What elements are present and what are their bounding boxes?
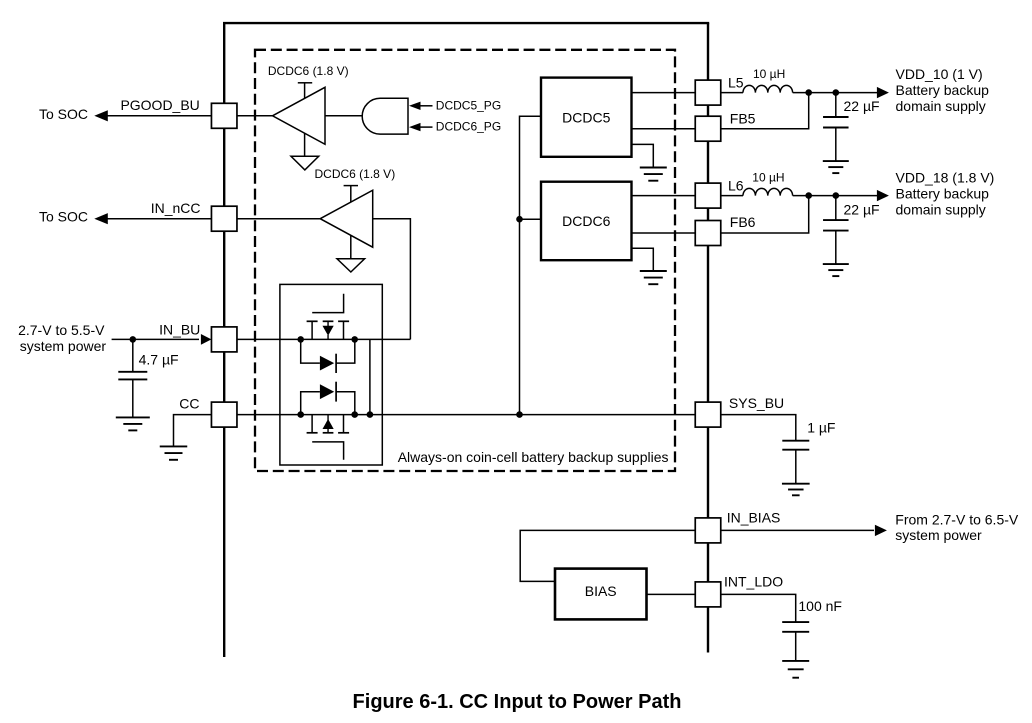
pin SYS_BU (695, 402, 721, 427)
svg-text:Battery backup: Battery backup (896, 185, 990, 201)
capacitor C3 22uF plates (823, 219, 849, 221)
svg-text:L5: L5 (728, 75, 744, 91)
svg-text:Figure 6-1. CC Input to Power: Figure 6-1. CC Input to Power Path (353, 691, 682, 713)
svg-text:From 2.7-V to 6.5-V: From 2.7-V to 6.5-V (895, 511, 1019, 527)
svg-text:IN_BIAS: IN_BIAS (727, 509, 781, 525)
svg-text:2.7-V to 5.5-V: 2.7-V to 5.5-V (18, 322, 105, 338)
ground below DCDC6 (640, 270, 667, 272)
power path block outline (280, 284, 382, 465)
supply stub into buffer U1 (304, 83, 306, 99)
inductor L6 10uH (743, 188, 793, 195)
wire DCDC6 feedback to FB6 (632, 232, 696, 234)
transistor Q1 left lead (311, 321, 313, 339)
arrow into AND gate input 2 (409, 123, 421, 131)
capacitor C2 22uF lead (835, 93, 837, 117)
svg-text:22 µF: 22 µF (844, 201, 880, 217)
transistor Q2 right lead (343, 415, 345, 433)
pin FB5 (695, 116, 721, 141)
pin L6 (695, 183, 721, 208)
buffer U3 (IN_nCC driver) (320, 190, 373, 247)
svg-text:L6: L6 (728, 178, 744, 194)
wire IN_nCC pin to buffer U3 output (237, 218, 321, 220)
junction dot IN_BU rail right (351, 336, 358, 343)
supply bar above buffer U1 (298, 82, 312, 84)
ground (open triangle) of buffer U3 (337, 259, 365, 272)
capacitor C5 100nF plates (782, 621, 809, 623)
svg-text:10 µH: 10 µH (752, 170, 784, 184)
wire IN_BIAS to system power arrow (721, 529, 874, 531)
svg-text:DCDC5: DCDC5 (562, 109, 610, 125)
svg-text:domain supply: domain supply (896, 98, 986, 114)
block BIAS (555, 569, 647, 620)
ground (open triangle) of buffer U1 (291, 156, 319, 170)
arrow VDD_10 output (877, 87, 889, 98)
wire buffer U1 input to AND gate output (325, 115, 364, 117)
svg-text:To SOC: To SOC (39, 106, 88, 122)
junction dot IN_BU rail left (297, 336, 304, 343)
wire IN_BIAS to BIAS block (520, 530, 695, 581)
pin FB6 (695, 221, 721, 246)
diode D1 cathode bar (335, 354, 337, 373)
wire buffer U3 input to IN_BU net (373, 219, 411, 340)
diode D2 cathode bar (335, 382, 337, 402)
junction dot CC rail left (297, 411, 304, 418)
transistor Q1 gate stub (312, 294, 343, 313)
wire FB6 feedback loop (721, 196, 809, 233)
ground stub below buffer U1 (304, 133, 306, 156)
capacitor C3 22uF lead (835, 196, 837, 221)
capacitor C1 4.7 uF plates (118, 371, 147, 373)
ground below C4 (782, 483, 810, 485)
capacitor C1 lower lead (132, 379, 134, 417)
IC boundary right edge (707, 23, 709, 652)
transistor Q1 right lead (343, 321, 345, 339)
AND gate U2 (DCDC5_PG & DCDC6_PG) (362, 98, 408, 134)
capacitor C1 4.7 uF lead (132, 339, 134, 371)
wire PGOOD_BU pin to arrow (107, 115, 211, 117)
diode D1 (body diode of Q1) (320, 356, 334, 371)
svg-text:DCDC6 (1.8 V): DCDC6 (1.8 V) (268, 64, 349, 78)
supply bar above buffer U3 (344, 185, 358, 187)
svg-text:Always-on coin-cell battery ba: Always-on coin-cell battery backup suppl… (398, 449, 669, 465)
junction dot on IN_BU input (130, 336, 137, 343)
buffer U1 (PGOOD_BU driver) (273, 87, 326, 144)
wire IN_nCC pin to arrow (107, 218, 211, 220)
wire L6 pin to inductor (721, 195, 743, 197)
pin INT_LDO (695, 582, 721, 607)
svg-text:system power: system power (20, 338, 107, 354)
wire BIAS output to INT_LDO (647, 593, 696, 595)
capacitor C2 lower lead (835, 128, 837, 162)
wire IN_BU rail (237, 338, 411, 340)
arrow into IN_BU pin (201, 334, 212, 345)
ground below C5 (782, 660, 809, 662)
arrow VDD_18 output (877, 190, 889, 201)
pin IN_BIAS (695, 518, 721, 543)
supply stub into buffer U3 (350, 186, 352, 203)
wire SYS_BU to capacitor C4 (721, 415, 796, 441)
wire PGOOD_BU pin to buffer (237, 115, 273, 117)
svg-text:4.7 µF: 4.7 µF (139, 352, 179, 368)
block DCDC6 (541, 182, 632, 261)
wire CC pin to ground (174, 415, 212, 447)
wire DCDC5 ground lead (632, 144, 654, 167)
svg-text:PGOOD_BU: PGOOD_BU (120, 97, 199, 113)
arrow to SOC (IN_nCC) (94, 213, 108, 224)
junction dot C3 tap (833, 192, 840, 199)
svg-text:IN_nCC: IN_nCC (151, 200, 201, 216)
diode D2 to rail wire (336, 392, 355, 415)
wire inductor L6 to arrow (793, 195, 878, 197)
wire DCDC6 input (520, 218, 542, 220)
pin IN_nCC (211, 206, 237, 231)
pin IN_BU (211, 327, 237, 352)
transistor Q2 gate stub (312, 442, 343, 460)
svg-text:INT_LDO: INT_LDO (724, 573, 783, 589)
arrow into AND gate input 1 (409, 102, 421, 110)
ground below C1 (116, 416, 150, 418)
ground stub below buffer U3 (350, 236, 352, 259)
transistor Q2 channel ticks (307, 432, 318, 434)
junction dot FB6 tap (805, 192, 812, 199)
wire DCDC5 feedback to FB5 (632, 128, 696, 130)
wire stub DCDC6_PG (421, 126, 433, 128)
arrow from system power (IN_BIAS) (875, 525, 887, 536)
wire system power to IN_BU pin (112, 338, 199, 340)
ground below C2 (823, 160, 849, 162)
pin L5 (695, 80, 721, 105)
svg-text:Battery backup: Battery backup (896, 82, 990, 98)
capacitor C3 lower lead (835, 231, 837, 265)
svg-text:system power: system power (895, 527, 982, 543)
svg-text:1 µF: 1 µF (807, 420, 835, 436)
svg-text:DCDC5_PG: DCDC5_PG (436, 98, 501, 112)
wire DCDC5 output to L5 (632, 92, 696, 94)
dashed block: always-on coin-cell backup supplies region (255, 50, 675, 471)
junction dot DCDC6 input tap (516, 216, 523, 223)
capacitor C5 lower lead (795, 632, 797, 661)
wire DCDC6 ground lead (632, 248, 654, 271)
diode D2 loop wire (301, 392, 320, 415)
capacitor C4 1uF plates (782, 440, 809, 442)
wire L5 pin to inductor (721, 92, 743, 94)
svg-text:10 µH: 10 µH (753, 67, 785, 81)
junction dot C2 tap (833, 89, 840, 96)
junction dot CC rail at cross link (367, 411, 374, 418)
capacitor C2 22uF plates (823, 116, 849, 118)
ground below C3 (823, 263, 849, 265)
pin CC (211, 402, 237, 427)
transistor Q1 body arrow (327, 321, 329, 326)
wire cross link between rails (369, 339, 371, 414)
junction dot CC rail right (351, 411, 358, 418)
wire INT_LDO to capacitor C5 (721, 594, 796, 622)
wire CC / SYS_BU rail (237, 414, 695, 416)
wire DCDC6 output to L6 (632, 195, 696, 197)
wire FB5 feedback loop (721, 93, 809, 129)
transistor Q2 left lead (311, 415, 313, 433)
pin PGOOD_BU (211, 103, 237, 128)
svg-text:DCDC6 (1.8 V): DCDC6 (1.8 V) (315, 167, 396, 181)
svg-text:SYS_BU: SYS_BU (729, 395, 784, 411)
junction dot FB5 tap (805, 89, 812, 96)
svg-text:IN_BU: IN_BU (159, 321, 200, 337)
wire stub DCDC5_PG (421, 105, 433, 107)
ground below CC (160, 445, 188, 447)
svg-text:FB5: FB5 (730, 110, 756, 126)
svg-text:DCDC6: DCDC6 (562, 213, 610, 229)
transistor Q2 body arrow (327, 415, 329, 421)
inductor L5 10uH (743, 85, 793, 92)
svg-text:DCDC6_PG: DCDC6_PG (436, 120, 501, 134)
svg-text:BIAS: BIAS (585, 583, 617, 599)
wire inductor L5 to arrow (793, 92, 878, 94)
transistor Q1 channel ticks (307, 320, 318, 322)
IC boundary left edge (223, 23, 225, 657)
diode D2 (body diode of Q2) (320, 384, 334, 399)
IC boundary top edge (223, 22, 709, 24)
svg-text:domain supply: domain supply (896, 201, 986, 217)
svg-text:22 µF: 22 µF (844, 98, 880, 114)
ground below DCDC5 (640, 167, 667, 169)
diode D1 loop wire (301, 339, 320, 363)
svg-text:VDD_10 (1 V): VDD_10 (1 V) (896, 66, 983, 82)
diode D1 to rail wire (336, 339, 355, 363)
svg-text:FB6: FB6 (730, 214, 756, 230)
block DCDC5 (541, 78, 632, 157)
capacitor C4 lower lead (795, 450, 797, 484)
junction dot rail to CC net (516, 411, 523, 418)
svg-text:CC: CC (179, 395, 199, 411)
wire DCDC5 input rail (520, 116, 542, 414)
arrow to SOC (PGOOD_BU) (94, 110, 108, 121)
svg-text:100 nF: 100 nF (798, 598, 842, 614)
svg-text:To SOC: To SOC (39, 209, 88, 225)
svg-text:VDD_18 (1.8 V): VDD_18 (1.8 V) (896, 169, 995, 185)
